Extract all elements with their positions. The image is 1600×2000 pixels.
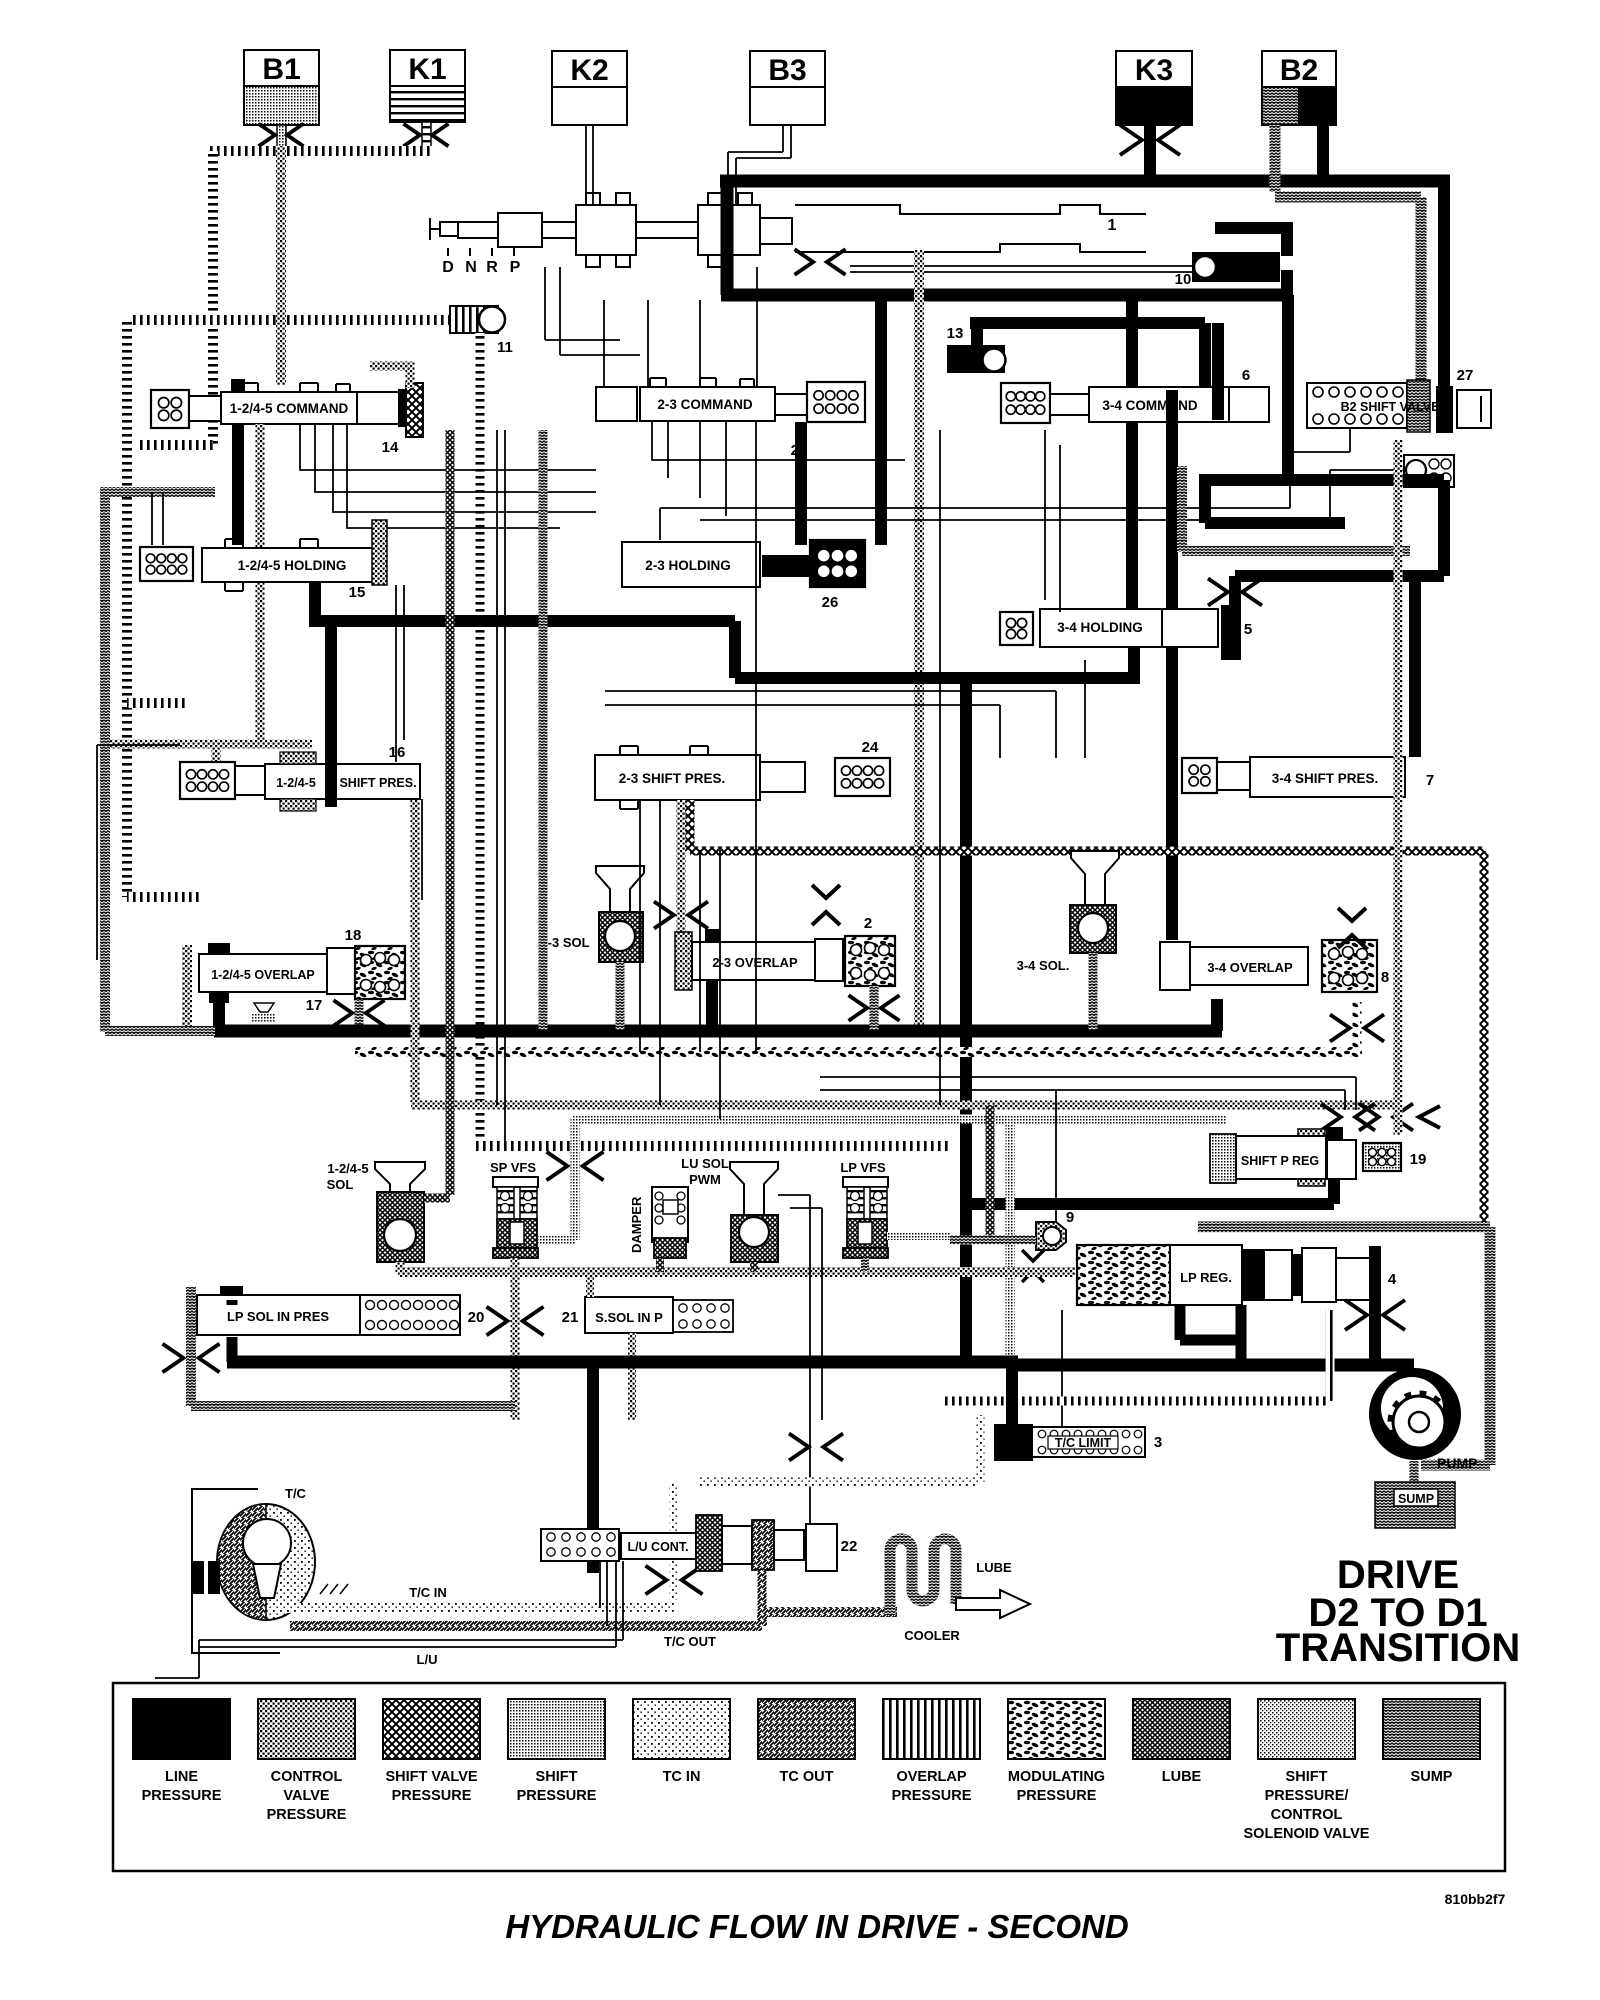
sump: elbow near 3-4 holding: [1182, 466, 1410, 552]
wire: thin risers middle: [640, 534, 756, 1119]
svg-text:L/U CONT.: L/U CONT.: [627, 1540, 688, 1554]
line pressure: y621 run: [309, 615, 735, 627]
line pressure: x1288 drop from y295 down right side: [1282, 295, 1294, 480]
svg-text:B2 SHIFT VALVE: B2 SHIFT VALVE: [1341, 400, 1440, 414]
valve 2 black top plug: [706, 930, 719, 942]
valve 24 right neck: [760, 762, 805, 792]
ball valve 13: [947, 345, 1006, 373]
wire: thin risers right of K3 line: [940, 430, 1085, 1105]
manual valve chamber inner profile: [795, 205, 1146, 252]
svg-text:LP VFS: LP VFS: [840, 1160, 886, 1175]
svg-text:13: 13: [947, 325, 964, 342]
svg-text:SP VFS: SP VFS: [490, 1160, 536, 1175]
svg-text:2: 2: [864, 915, 872, 932]
valve 26 spring box (black with white circles): [810, 540, 865, 587]
svg-text:HYDRAULIC FLOW IN DRIVE - SECO: HYDRAULIC FLOW IN DRIVE - SECOND: [505, 1908, 1128, 1945]
lube: elbow from 1-2/4-5 SOL to riser: [424, 1194, 450, 1203]
solenoid LP VFS: [843, 1177, 888, 1258]
restrictor below K3: [1120, 125, 1180, 155]
sump: 2-3 SOL drain: [616, 962, 625, 1030]
valve 27 sump block: [1407, 380, 1430, 432]
svg-text:T/C IN: T/C IN: [409, 1585, 447, 1600]
wire: thin line y470 across: [700, 470, 1404, 520]
sump: B2 line across to right drop: [1275, 192, 1421, 203]
svg-text:LINE: LINE: [165, 1769, 198, 1785]
valve 2 accumulator blob box: [845, 936, 895, 986]
modulating: valve 8 drain riser with restrictor: [1353, 1002, 1362, 1052]
wire: thin loop from B2 shift valve down: [660, 428, 1350, 540]
sump: left edge loop: [105, 487, 215, 1032]
legend box: [113, 1683, 1505, 1871]
svg-text:PUMP: PUMP: [1437, 1455, 1477, 1471]
control dotted: feed band to valve 16: [100, 744, 312, 762]
svg-text:1-2/4-5 OVERLAP: 1-2/4-5 OVERLAP: [211, 968, 315, 982]
legend swatch OVERLAP: [883, 1699, 980, 1804]
svg-text:B3: B3: [768, 54, 806, 87]
control dotted: sol base to gallery: [396, 1262, 405, 1272]
valve 18: 1-2/4-5 OVERLAP black cap: [209, 944, 229, 957]
line pressure: x1134 up into 3-4 holding: [1128, 647, 1140, 678]
valve 5 body 3-4 HOLDING: [1040, 609, 1162, 647]
svg-text:K2: K2: [570, 54, 608, 87]
line pressure: chamber tap down to ball 10: [1215, 222, 1287, 256]
control dotted: left elbow riser x415: [411, 800, 420, 1105]
K1 feed restrictor: [404, 122, 449, 147]
wire: L/U thin line: [199, 1561, 623, 1647]
control dotted: riser to 2-3 overlap with restrictor: [677, 800, 686, 940]
valve 7 neck: [1217, 762, 1250, 790]
line pressure: x1132 drop from y295 to 3-4 command and holding: [1126, 295, 1138, 610]
valve 16: 1-2/4-5 SHIFT PRES spring box: [180, 762, 235, 799]
valve 27: B2 SHIFT VALVE body: [1307, 383, 1407, 428]
control dotted: gallery band y1272: [398, 1267, 1075, 1277]
wire: thin feeds to LP REG: [1056, 1090, 1062, 1450]
svg-text:COOLER: COOLER: [904, 1628, 960, 1643]
control dotted: drop below y1358: [511, 1364, 520, 1420]
svg-text:19: 19: [1410, 1151, 1427, 1168]
svg-text:1: 1: [1108, 217, 1117, 234]
valve 15 body 1-2/4-5 HOLDING: [202, 548, 382, 582]
line pressure: x1012 drop to T/C LIMIT: [1006, 1362, 1018, 1425]
svg-text:T/C: T/C: [285, 1486, 307, 1501]
tcout: riser from valve 22 to T/C OUT line: [758, 1570, 767, 1626]
svg-text:16: 16: [389, 744, 406, 761]
legend swatch SHIFT: [508, 1699, 605, 1804]
svg-text:TRANSITION: TRANSITION: [1276, 1626, 1520, 1670]
control dotted: elbow from right into valve 14: [370, 366, 410, 388]
clutch K2 box: [552, 51, 627, 125]
valve 22 hatched block: [696, 1515, 722, 1571]
valve 6 right end: [1229, 387, 1269, 422]
valve 25: 2-3 COMMAND left block: [596, 387, 637, 421]
svg-text:3-4 OVERLAP: 3-4 OVERLAP: [1207, 960, 1293, 975]
control dotted: valve 14 x260 down: [256, 424, 265, 740]
svg-text:1-2/4-5: 1-2/4-5: [276, 776, 316, 790]
valve 6: 3-4 COMMAND spring box: [1001, 383, 1050, 423]
valve 19 black cap: [1327, 1128, 1342, 1140]
svg-text:K3: K3: [1135, 54, 1173, 87]
valve 25 neck: [775, 394, 807, 415]
svg-text:24: 24: [862, 739, 879, 756]
valve 15 dotted end block: [372, 520, 387, 585]
line pressure: valve 15 down to y621: [309, 582, 321, 621]
modulating pressure band y1052: [355, 1047, 1362, 1057]
valve 14 body 1-2/4-5 COMMAND: [221, 392, 357, 424]
restrictor on valve 4 drop: [1345, 1300, 1405, 1330]
flow arrows above valve 8: [1338, 908, 1366, 948]
sump: valve 2 drain riser with restrictor: [870, 986, 879, 1030]
legend swatch SHIFT VALVE: [383, 1699, 480, 1804]
wire: ladder stub left at y445: [136, 440, 213, 450]
valve 21 spring circles: [673, 1300, 733, 1332]
svg-text:N: N: [465, 259, 477, 276]
svg-text:B1: B1: [262, 53, 300, 86]
valve 27 black bar: [1437, 387, 1452, 432]
lube: damper to gallery: [656, 1258, 664, 1272]
restrictor on tc-in drop: [646, 1566, 703, 1595]
valve 19: SHIFT P REG left cap: [1210, 1134, 1236, 1183]
svg-text:2-3 HOLDING: 2-3 HOLDING: [645, 558, 731, 573]
line pressure: step down x735: [729, 621, 741, 678]
brake B3 box: [750, 51, 825, 125]
check valve 11: [450, 306, 505, 333]
svg-text:B2: B2: [1280, 54, 1318, 87]
valve 4: LP REG body: [1170, 1245, 1242, 1305]
wire: thin risers x497 x505: [497, 430, 505, 1146]
wire: K2 stem to manual valve: [586, 125, 593, 205]
valve 4 middle: [1264, 1250, 1292, 1300]
svg-text:LUBE: LUBE: [1162, 1769, 1202, 1785]
svg-text:SHIFT VALVE: SHIFT VALVE: [385, 1769, 477, 1785]
svg-text:1-2/4-5: 1-2/4-5: [327, 1161, 368, 1176]
svg-text:3-4 COMMAND: 3-4 COMMAND: [1102, 398, 1198, 413]
line pressure: y323 run to 3-4 command: [970, 323, 1205, 390]
manual valve selector lever: [430, 218, 470, 240]
svg-text:3-4 SHIFT PRES.: 3-4 SHIFT PRES.: [1272, 771, 1379, 786]
svg-text:LP SOL IN PRES: LP SOL IN PRES: [227, 1309, 329, 1324]
manual valve internal pilot line to ball 10: [850, 266, 1192, 272]
wire: thin pair down right side: [820, 1077, 1356, 1110]
svg-text:14: 14: [382, 439, 399, 456]
modulating: LP REG accumulator box: [1077, 1245, 1170, 1305]
svg-text:PRESSURE: PRESSURE: [267, 1807, 347, 1823]
solenoid 1-2/4-5 SOL label: [327, 1161, 369, 1192]
manual valve chamber left wall: [721, 181, 734, 295]
clutch K1 box: [390, 50, 465, 122]
hatch: right riser down: [1480, 851, 1489, 1230]
svg-text:SHIFT PRES.: SHIFT PRES.: [339, 776, 416, 790]
wire: thin stems below valve 14: [300, 424, 596, 528]
valve 5: 3-4 HOLDING spring box: [1000, 612, 1033, 645]
svg-text:SUMP: SUMP: [1398, 1492, 1434, 1506]
svg-text:20: 20: [468, 1309, 485, 1326]
line pressure: x1165 through 3-4 command down: [1166, 390, 1178, 940]
valve 22 white end box: [806, 1524, 837, 1571]
svg-text:SHIFT: SHIFT: [1286, 1769, 1328, 1785]
valve 6 body 3-4 COMMAND: [1089, 387, 1229, 422]
restrictor right of SP VFS: [547, 1152, 604, 1181]
flow arrows above valve 2: [812, 885, 840, 925]
legend swatch MODULATING: [1008, 1699, 1105, 1804]
legend swatch CONTROL: [258, 1699, 355, 1823]
line pressure: y1365 run to pump: [1012, 1359, 1414, 1372]
svg-text:27: 27: [1457, 367, 1474, 384]
restrictor on valve 18 drain: [334, 1000, 385, 1026]
manual valve body chamber thick top wall (line pressure): [720, 175, 1450, 188]
T/C outline box: [192, 1489, 280, 1653]
valve 20 body LP SOL IN PRES: [197, 1295, 360, 1335]
valve 22 body L/U CONT.: [621, 1533, 696, 1559]
valve 20: LP SOL IN PRES black cap: [221, 1287, 242, 1300]
svg-text:3-4 SOL.: 3-4 SOL.: [1017, 958, 1070, 973]
valve 5 black end cap: [1222, 606, 1240, 659]
valve 6 neck: [1050, 394, 1089, 415]
valve 19 spring box: [1363, 1143, 1401, 1171]
solenoid LU SOL PWM label: [681, 1156, 729, 1187]
valve 14 black top cap: [231, 379, 245, 392]
svg-text:6: 6: [1242, 367, 1250, 384]
solenoid 2-3 SOL: [596, 866, 644, 962]
svg-text:3: 3: [1154, 1434, 1162, 1451]
svg-text:PWM: PWM: [689, 1172, 721, 1187]
control dotted: left riser to valve 18: [182, 945, 192, 1030]
svg-text:2-3 COMMAND: 2-3 COMMAND: [657, 397, 753, 412]
legend swatch SHIFT: [1244, 1699, 1370, 1842]
restrictor in manual valve chamber: [795, 249, 846, 275]
valve 4 black section: [1242, 1250, 1264, 1300]
shift texture: riser from band into SP VFS: [538, 1119, 575, 1240]
valve 16 neck: [235, 766, 265, 795]
svg-text:T/C LIMIT: T/C LIMIT: [1055, 1436, 1112, 1450]
legend swatch SUMP: [1383, 1699, 1480, 1785]
solenoid 3-4 SOL: [1070, 851, 1119, 953]
wire: riser T/C IN to L/U CONT: [600, 1561, 607, 1626]
wire: B3 stem stepped to valve row: [728, 125, 791, 205]
valve 24: 2-3 SHIFT PRES body: [595, 755, 760, 800]
legend swatch TC IN: [633, 1699, 730, 1785]
valve 18 mid section: [327, 948, 355, 994]
brake B1 box: [244, 50, 319, 125]
svg-text:LU SOL: LU SOL: [681, 1156, 729, 1171]
svg-text:MODULATING: MODULATING: [1008, 1769, 1105, 1785]
valve 27 right end: [1457, 390, 1491, 428]
valve 15: 1-2/4-5 HOLDING spring box: [140, 547, 193, 581]
T/C input black cells: [192, 1561, 220, 1594]
restrictors trio above shift P reg: [1321, 1104, 1375, 1131]
svg-text:26: 26: [822, 594, 839, 611]
wire: thin left verticals: [97, 492, 180, 960]
line pressure: y523 run: [1205, 474, 1345, 523]
line pressure: x1444 y480-576: [1438, 480, 1450, 576]
valve 8 accumulator blob box: [1322, 940, 1377, 992]
svg-text:PRESSURE/: PRESSURE/: [1265, 1788, 1349, 1804]
spray nozzle below valve 18: [252, 1003, 276, 1022]
control dotted band y1105: [411, 1101, 1398, 1110]
shift pressure band y1119: [572, 1115, 1226, 1124]
lube arrow: [956, 1590, 1030, 1618]
wire: valve 24 tabs: [620, 746, 708, 809]
svg-text:SOLENOID VALVE: SOLENOID VALVE: [1244, 1826, 1370, 1842]
wire: valve 25 tabs and stems: [650, 378, 754, 387]
line pressure: main run hooks up into valve 8: [1211, 999, 1223, 1031]
valve 7: 3-4 SHIFT PRES spring box: [1182, 758, 1217, 793]
valve 26: 2-3 HOLDING body: [622, 542, 760, 587]
svg-text:CONTROL: CONTROL: [1271, 1807, 1343, 1823]
sump: stub from band to valve 9: [950, 1236, 1036, 1245]
line pressure: x1218 into 3-4 command: [1212, 323, 1224, 420]
svg-text:810bb2f7: 810bb2f7: [1445, 1891, 1506, 1907]
sump: big loop around pump: [1198, 1227, 1490, 1465]
B1 feed restrictor: [259, 124, 304, 147]
line pressure: LP REG bottom drops: [1180, 1305, 1241, 1365]
svg-text:TC OUT: TC OUT: [780, 1769, 834, 1785]
valve 7 body 3-4 SHIFT PRES.: [1250, 757, 1405, 797]
valve 3: T/C LIMIT black box: [995, 1425, 1032, 1460]
restrictor on left sump riser: [163, 1344, 220, 1373]
wire: thin stems below valve 25: [652, 421, 905, 534]
svg-text:4: 4: [1388, 1271, 1397, 1288]
valve 26 black connector: [763, 556, 808, 576]
svg-text:3-4 HOLDING: 3-4 HOLDING: [1057, 620, 1143, 635]
valve 4 right sections: [1302, 1248, 1336, 1302]
svg-text:PRESSURE: PRESSURE: [392, 1788, 472, 1804]
line pressure: through valve 14 x238: [232, 386, 244, 545]
wire: ladder drop from manifold: [208, 151, 218, 445]
wire: ladder branch y703: [127, 698, 185, 708]
restrictor on LU SOL drain: [789, 1434, 843, 1461]
check valve 9: [1036, 1222, 1066, 1250]
line pressure: y1358 long bottom run: [227, 1356, 1018, 1369]
line pressure: B2 black stem: [1317, 125, 1329, 181]
wire: thin feeds above valve 25 from manual valve: [545, 267, 757, 387]
svg-text:L/U: L/U: [417, 1652, 438, 1667]
valve 22: L/U CONT circles box: [541, 1529, 619, 1561]
line pressure: x881 drop from y295 to 2-3 holding: [875, 301, 887, 545]
line pressure: valve 18 black cap bottom + drop: [209, 991, 229, 1032]
svg-text:P: P: [510, 259, 521, 276]
manual valve spool tabs: [586, 193, 752, 267]
line pressure: x593 drop to L/U CONT: [587, 1362, 599, 1573]
tc-in texture: elbow at T/C LIMIT: [674, 1415, 980, 1600]
wire: L/U left hook: [155, 1640, 199, 1678]
sump: 3-4 SOL drain: [1089, 953, 1098, 1030]
valve 19 white end: [1327, 1140, 1356, 1179]
ball valve 10: [1192, 252, 1280, 282]
line pressure: x1235 drop into valve 5: [1229, 576, 1241, 609]
legend swatch LUBE: [1133, 1699, 1230, 1785]
overlap ladder: LP REG return band: [945, 1310, 1330, 1401]
valve 16 dotted blocks: [280, 752, 316, 764]
sump: LP VFS drop to gallery: [861, 1258, 869, 1272]
svg-text:5: 5: [1244, 621, 1252, 638]
valve 24 spring box: [835, 758, 890, 796]
svg-text:10: 10: [1175, 271, 1192, 288]
line pressure: valve 20 left hook: [227, 1300, 238, 1362]
svg-text:SHIFT: SHIFT: [536, 1769, 578, 1785]
line pressure: valve 2 black drop: [706, 980, 718, 1032]
solenoid LU SOL PWM: [730, 1162, 778, 1262]
svg-text:LUBE: LUBE: [976, 1560, 1012, 1575]
valve 2: 2-3 OVERLAP dotted cap: [675, 932, 692, 990]
wire: left ladder rail down: [122, 320, 132, 897]
valve 25 spring box: [807, 382, 865, 422]
svg-text:1-2/4-5 COMMAND: 1-2/4-5 COMMAND: [230, 401, 349, 416]
svg-text:SOL: SOL: [327, 1177, 354, 1192]
shift texture: LP VFS to right band: [887, 1232, 950, 1240]
valve 14 neck: [189, 396, 221, 421]
svg-text:PRESSURE: PRESSURE: [142, 1788, 222, 1804]
restrictor above valve 5: [1208, 579, 1262, 606]
valve 3 body T/C LIMIT: [1032, 1427, 1145, 1457]
valve 5 right section: [1162, 609, 1218, 647]
brake B2 box: [1262, 51, 1336, 125]
svg-text:SUMP: SUMP: [1411, 1769, 1453, 1785]
overlap ladder band y1146: [475, 1141, 950, 1151]
svg-text:T/C OUT: T/C OUT: [664, 1634, 716, 1649]
DRIVE D2 TO D1 TRANSITION caption: [1276, 1553, 1520, 1670]
valve 2 right sections: [815, 939, 843, 981]
sump: B2 sump stem: [1270, 125, 1281, 192]
valve 27 spring circles: [1313, 387, 1403, 424]
restrictor single arrow: [1419, 1106, 1440, 1128]
svg-text:OVERLAP: OVERLAP: [896, 1769, 966, 1785]
line pressure: y480 run right: [1205, 474, 1444, 486]
sump: valve 18 drain riser with restrictor: [355, 999, 364, 1030]
wire: valve 15 tabs: [225, 539, 318, 591]
wire: ladder branch y897: [127, 892, 200, 902]
line pressure: ball 10 down to y295 run: [1281, 270, 1293, 300]
svg-text:TC IN: TC IN: [663, 1769, 701, 1785]
manual valve chamber / line pressure bottom run to ball 10: [721, 289, 1293, 302]
solenoid SP VFS: [493, 1177, 538, 1258]
valve 8: 3-4 OVERLAP body: [1190, 947, 1308, 985]
legend swatch TC OUT: [758, 1699, 855, 1785]
svg-text:22: 22: [841, 1538, 858, 1555]
valve 18 body 1-2/4-5 OVERLAP: [199, 954, 327, 992]
svg-text:S.SOL IN P: S.SOL IN P: [595, 1310, 663, 1325]
lube: LU SOL base to gallery: [750, 1262, 758, 1272]
line pressure: 2-3 command to 2-3 holding x801: [795, 422, 807, 545]
tc-in band: T/C IN line: [286, 1603, 674, 1613]
svg-text:PRESSURE: PRESSURE: [892, 1788, 972, 1804]
wire: ladder line to check valve 11: [132, 315, 450, 325]
svg-text:8: 8: [1381, 969, 1389, 986]
pump: [1369, 1368, 1461, 1460]
svg-text:7: 7: [1426, 772, 1434, 789]
solenoid 1-2/4-5 SOL: [375, 1162, 425, 1262]
valve 16 body 1-2/4-5 SHIFT PRES.: [265, 764, 420, 799]
wire: thin line from LU SOL right then down: [778, 1195, 822, 1530]
line pressure: right drop x1444 to valve 27: [1438, 181, 1450, 390]
hatch marks at T/C hub: [320, 1584, 348, 1594]
wire: B1 control-valve dotted drop to valve 14: [276, 147, 286, 385]
sump: box outline left of valve 20: [191, 1287, 515, 1406]
svg-text:PRESSURE: PRESSURE: [517, 1788, 597, 1804]
line pressure: x331 into valve 16: [325, 621, 337, 807]
valve 14 black plug: [399, 390, 407, 426]
valve 14: 1-2/4-5 COMMAND spring box: [151, 390, 189, 428]
svg-text:PRESSURE: PRESSURE: [1017, 1788, 1097, 1804]
control valve dotted: manual valve to lower galleries (K3 branch): [914, 250, 924, 1030]
valve 14 shift-valve hatch block: [406, 383, 423, 437]
valve 8 left blocks: [1160, 942, 1190, 990]
wire: thin horizontals y691 y705: [605, 691, 1056, 758]
svg-text:1-2/4-5 HOLDING: 1-2/4-5 HOLDING: [238, 558, 347, 573]
valve 20 spring section with circles: [360, 1295, 460, 1335]
svg-text:15: 15: [349, 584, 366, 601]
svg-text:VALVE: VALVE: [283, 1788, 330, 1804]
tc-out band: T/C OUT line: [290, 1612, 897, 1626]
